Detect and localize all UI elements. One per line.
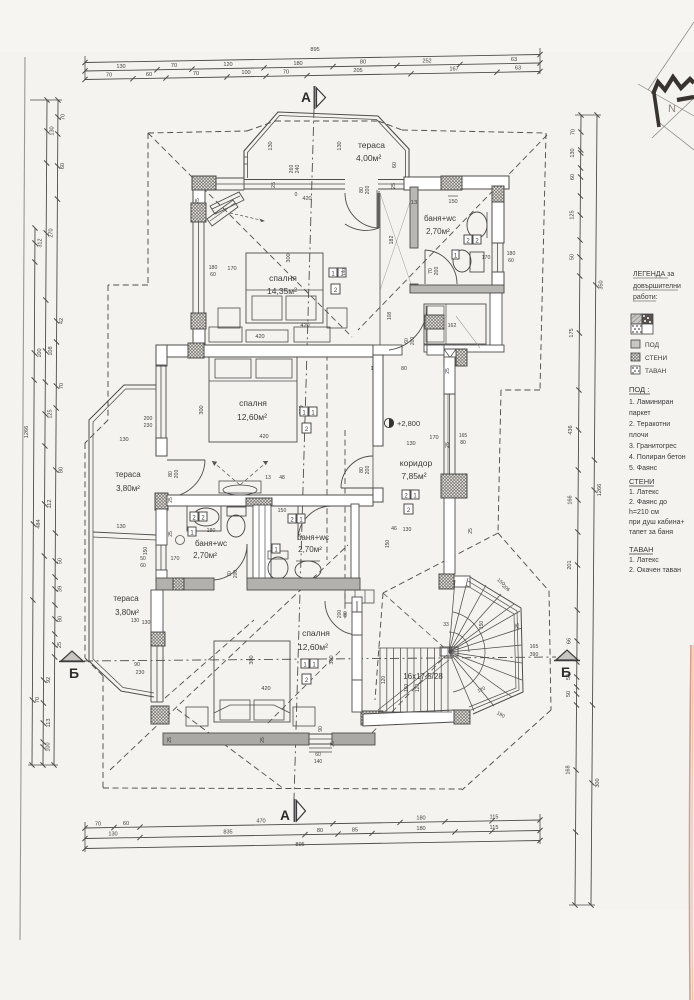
svg-text:80: 80	[343, 611, 349, 617]
right dimension chain	[575, 115, 581, 905]
roof outline dashed	[147, 133, 149, 285]
svg-text:140: 140	[314, 759, 323, 765]
bedroom2 furniture against top wall	[209, 327, 242, 342]
svg-text:ПОД: ПОД	[645, 342, 660, 349]
bedroom1 west wall upper pier	[191, 203, 206, 222]
svg-text:108: 108	[387, 312, 393, 321]
svg-text:42: 42	[59, 318, 65, 324]
svg-text:ТАВАН: ТАВАН	[645, 368, 667, 375]
svg-text:спалня: спалня	[269, 273, 297, 283]
svg-text:100: 100	[241, 70, 250, 76]
pink page edge right	[689, 645, 691, 1000]
svg-text:160: 160	[404, 684, 410, 693]
bath3 boxes	[288, 514, 296, 523]
bath2 toilet	[227, 507, 246, 516]
svg-text:1266: 1266	[597, 484, 603, 496]
svg-text:+2,800: +2,800	[397, 419, 420, 428]
svg-text:70: 70	[570, 129, 576, 135]
bedroom2 dresser	[219, 481, 261, 493]
svg-text:150: 150	[448, 199, 457, 205]
bottom dimension chain	[85, 820, 540, 828]
svg-text:420: 420	[261, 686, 270, 692]
svg-text:ЛЕГЕНДА за: ЛЕГЕНДА за	[633, 271, 674, 278]
svg-text:25: 25	[195, 198, 201, 204]
svg-text:ТАВАН: ТАВАН	[629, 545, 654, 554]
svg-text:4,00м²: 4,00м²	[356, 153, 381, 163]
svg-text:12,60м²: 12,60м²	[298, 642, 328, 652]
svg-text:162: 162	[448, 323, 457, 329]
svg-text:60: 60	[508, 258, 514, 264]
svg-text:470: 470	[256, 818, 265, 824]
bath1 north wall	[404, 177, 441, 190]
svg-text:201: 201	[567, 560, 573, 569]
north wall hatch pier left	[192, 176, 216, 190]
svg-text:25: 25	[468, 528, 474, 534]
bath1 west wall	[410, 187, 418, 248]
svg-text:спалня: спалня	[302, 628, 330, 638]
svg-text:835: 835	[223, 829, 232, 835]
svg-text:200: 200	[434, 267, 440, 276]
svg-text:70: 70	[283, 69, 289, 75]
stair hall south wall	[363, 710, 454, 726]
closet south wall	[424, 345, 504, 352]
svg-text:80: 80	[401, 366, 407, 372]
svg-text:2,70м²: 2,70м²	[426, 227, 450, 236]
svg-text:200: 200	[410, 337, 416, 346]
section line A-A	[294, 109, 314, 799]
svg-text:115: 115	[490, 825, 499, 831]
svg-text:130: 130	[108, 832, 117, 838]
wall bedroom2-baths	[167, 495, 373, 506]
svg-text:85: 85	[352, 827, 358, 833]
bedroom2 west pier	[155, 493, 168, 510]
svg-text:2. Окачен таван: 2. Окачен таван	[629, 567, 681, 574]
svg-text:80: 80	[57, 616, 63, 622]
east wall bath1	[492, 186, 504, 243]
stair cut line	[378, 655, 447, 710]
stair walk line	[453, 612, 485, 692]
bath2 sink	[187, 506, 221, 531]
svg-text:50: 50	[140, 556, 146, 562]
svg-text:тапет за баня: тапет за баня	[629, 528, 673, 536]
svg-text:484: 484	[36, 519, 42, 528]
svg-text:при душ кабина+: при душ кабина+	[629, 518, 685, 526]
svg-text:66: 66	[567, 638, 573, 644]
svg-text:200: 200	[174, 470, 180, 479]
svg-text:25: 25	[260, 737, 266, 743]
svg-text:4. Полиран бетон: 4. Полиран бетон	[629, 453, 686, 461]
svg-text:108: 108	[48, 346, 54, 355]
svg-text:60: 60	[315, 752, 321, 758]
bath1 south wall	[410, 285, 504, 293]
svg-text:130: 130	[142, 620, 151, 626]
svg-text:130: 130	[337, 141, 343, 150]
svg-text:63: 63	[515, 65, 521, 71]
bath3 toilet	[268, 557, 288, 579]
svg-text:170: 170	[429, 435, 438, 441]
svg-text:230: 230	[144, 423, 153, 429]
svg-text:180: 180	[416, 826, 425, 832]
svg-text:180: 180	[507, 251, 516, 257]
bedroom2 boxes	[300, 407, 308, 416]
stair bay windows	[470, 577, 523, 714]
svg-text:70: 70	[59, 383, 65, 389]
svg-text:60: 60	[210, 272, 216, 278]
svg-text:240: 240	[295, 165, 301, 174]
bedroom1 nightstands	[218, 308, 240, 328]
svg-text:СТЕНИ: СТЕНИ	[629, 477, 655, 486]
svg-text:5. Фаянс: 5. Фаянс	[629, 465, 658, 472]
svg-text:СТЕНИ: СТЕНИ	[645, 355, 667, 362]
svg-text:плочи: плочи	[629, 432, 648, 439]
svg-text:1266: 1266	[24, 426, 30, 438]
svg-text:113: 113	[46, 719, 52, 728]
bedroom2 east wall	[373, 355, 383, 446]
bedroom1 bed	[246, 253, 323, 323]
svg-text:0: 0	[295, 192, 298, 198]
bedroom2 swing arrows	[212, 461, 240, 485]
stair bay pier bottom	[454, 710, 470, 724]
bedroom2 terrace door	[167, 459, 205, 461]
svg-text:1. Латекс: 1. Латекс	[629, 489, 659, 496]
svg-text:420: 420	[259, 434, 268, 440]
svg-text:коридор: коридор	[400, 458, 433, 468]
svg-text:200: 200	[144, 416, 153, 422]
svg-text:150: 150	[385, 540, 391, 549]
svg-text:200: 200	[365, 186, 371, 195]
svg-text:70: 70	[193, 71, 199, 77]
svg-text:60: 60	[60, 163, 66, 169]
svg-text:баня+wc: баня+wc	[297, 533, 329, 542]
bedroom2 bed	[209, 357, 297, 442]
staircase straight flight	[378, 647, 452, 649]
svg-text:Б: Б	[69, 665, 79, 681]
svg-text:300: 300	[595, 778, 601, 787]
svg-text:N: N	[668, 103, 676, 115]
east wall corridor strip	[444, 357, 455, 394]
stair hall west wall	[352, 612, 362, 635]
svg-text:420: 420	[300, 323, 309, 329]
svg-text:50: 50	[58, 558, 64, 564]
top dimension chain	[85, 55, 540, 63]
svg-text:25: 25	[168, 531, 174, 537]
svg-text:300: 300	[199, 405, 205, 414]
terrace bay west	[89, 385, 156, 697]
svg-text:170: 170	[171, 556, 180, 562]
svg-text:90: 90	[134, 662, 140, 668]
svg-text:100: 100	[37, 348, 43, 357]
svg-text:25: 25	[271, 182, 277, 188]
bedroom1 finish boxes	[329, 268, 337, 277]
svg-text:3,80м²: 3,80м²	[115, 608, 139, 617]
corridor east wall window	[443, 394, 445, 474]
bedroom1 west window	[192, 222, 194, 313]
svg-text:300: 300	[329, 655, 335, 664]
svg-text:125: 125	[48, 409, 54, 418]
level mark +2.800	[384, 418, 393, 427]
svg-text:120: 120	[415, 684, 421, 693]
svg-text:895: 895	[310, 47, 319, 53]
svg-text:46: 46	[391, 526, 397, 532]
svg-text:80: 80	[317, 828, 323, 834]
svg-text:13: 13	[411, 200, 417, 206]
svg-text:120: 120	[381, 676, 387, 685]
svg-text:А: А	[280, 808, 290, 823]
svg-text:2. Фаянс до: 2. Фаянс до	[629, 499, 667, 506]
svg-text:130: 130	[406, 441, 415, 447]
svg-text:60: 60	[392, 162, 398, 168]
corridor east wall lower	[444, 498, 455, 574]
svg-text:70: 70	[60, 114, 66, 120]
east shaft X	[444, 349, 456, 366]
north wall sill lines under bay	[244, 179, 345, 181]
bedroom1 flue duct	[210, 192, 244, 214]
svg-text:200: 200	[233, 570, 239, 579]
section line B-B	[84, 657, 556, 661]
bedroom1 door to vestibule	[378, 191, 380, 228]
section mark B right	[556, 650, 578, 660]
svg-text:167: 167	[449, 67, 458, 73]
page edge line	[20, 57, 25, 940]
bath3 sink	[295, 561, 321, 579]
bath2-3 wall	[253, 505, 271, 582]
svg-text:Б: Б	[561, 664, 571, 680]
svg-text:130: 130	[116, 524, 125, 530]
svg-text:300: 300	[286, 253, 292, 262]
svg-text:баня+wc: баня+wc	[424, 214, 456, 223]
bedroom3 boxes	[301, 659, 309, 668]
bath1 toilet	[470, 252, 484, 272]
corridor north wall + door	[373, 345, 402, 355]
svg-text:80: 80	[460, 440, 466, 446]
bedroom1 west wall lower pier	[191, 313, 206, 329]
svg-text:48: 48	[279, 475, 285, 481]
svg-text:25: 25	[168, 497, 174, 503]
svg-text:7,85м²: 7,85м²	[401, 471, 426, 481]
svg-text:70: 70	[171, 63, 177, 69]
svg-text:270: 270	[49, 228, 55, 237]
svg-text:166: 166	[568, 495, 574, 504]
terrace divider	[93, 532, 156, 535]
svg-text:70: 70	[35, 697, 41, 703]
svg-text:312: 312	[37, 238, 43, 247]
svg-text:ПОД :: ПОД :	[629, 385, 649, 394]
svg-text:100: 100	[46, 742, 52, 751]
svg-text:2,70м²: 2,70м²	[193, 551, 217, 560]
bath3 east wall	[351, 504, 359, 582]
svg-text:205: 205	[353, 68, 362, 74]
svg-text:420: 420	[302, 196, 311, 202]
svg-text:170: 170	[482, 255, 491, 261]
svg-text:60: 60	[146, 72, 152, 78]
svg-text:25: 25	[515, 623, 521, 629]
svg-text:300: 300	[249, 655, 255, 664]
svg-text:работи:: работи:	[633, 293, 658, 301]
bedroom3 entry steps	[345, 590, 374, 603]
bath1 washbasin	[467, 212, 487, 238]
svg-text:895: 895	[295, 842, 304, 848]
svg-text:180: 180	[209, 265, 218, 271]
svg-text:230: 230	[136, 670, 145, 676]
terrace door	[377, 193, 379, 228]
svg-text:тераса: тераса	[358, 140, 385, 150]
svg-text:90: 90	[318, 726, 324, 732]
svg-text:12,60м²: 12,60м²	[237, 412, 267, 422]
south-east pier	[361, 711, 383, 725]
mid wall bedroom1-2	[167, 345, 373, 357]
svg-text:13: 13	[265, 475, 271, 481]
svg-text:h=210 см: h=210 см	[629, 509, 659, 516]
svg-text:60: 60	[570, 174, 576, 180]
north arrow	[648, 22, 694, 90]
svg-text:182: 182	[389, 236, 395, 245]
corridor east pier	[441, 474, 467, 498]
bedroom2 west wall	[156, 345, 167, 366]
bath1 door	[424, 250, 426, 284]
bath2 west wall window small	[155, 545, 157, 570]
svg-text:25: 25	[57, 642, 63, 648]
svg-text:63: 63	[511, 57, 517, 63]
svg-text:1. Латекс: 1. Латекс	[629, 557, 659, 564]
svg-text:баня+wc: баня+wc	[195, 539, 227, 548]
south wall	[163, 733, 309, 745]
svg-text:125: 125	[570, 210, 576, 219]
svg-text:50: 50	[569, 254, 575, 260]
svg-text:168: 168	[566, 765, 572, 774]
svg-text:35: 35	[330, 741, 336, 747]
svg-text:1. Ламиниран: 1. Ламиниран	[629, 399, 674, 406]
svg-text:60: 60	[140, 563, 146, 569]
corridor boxes	[402, 490, 410, 499]
svg-text:200: 200	[365, 466, 371, 475]
svg-text:165: 165	[530, 644, 539, 650]
bath1 boxes	[464, 235, 472, 244]
svg-text:130: 130	[268, 141, 274, 150]
svg-text:2. Теракотни: 2. Теракотни	[629, 421, 670, 428]
svg-text:200: 200	[337, 610, 343, 619]
wall baths-bedroom3	[156, 578, 214, 590]
svg-text:60: 60	[123, 821, 129, 827]
bedroom3 nightstands	[186, 707, 208, 726]
legend small squares	[631, 340, 640, 348]
svg-text:420: 420	[255, 334, 264, 340]
svg-text:150: 150	[278, 508, 287, 514]
svg-text:33: 33	[443, 622, 449, 628]
svg-text:130: 130	[116, 64, 125, 70]
svg-text:довършителни: довършителни	[633, 283, 681, 290]
svg-text:25: 25	[167, 737, 173, 743]
svg-text:120: 120	[223, 62, 232, 68]
svg-text:80: 80	[58, 467, 64, 473]
svg-text:165: 165	[459, 433, 468, 439]
stair bay pier top	[439, 574, 454, 589]
svg-text:14,35м²: 14,35м²	[267, 286, 297, 296]
corridor n-wall pier	[425, 315, 444, 329]
svg-text:150: 150	[143, 547, 149, 556]
terrace bay window top	[244, 112, 409, 178]
svg-text:70: 70	[95, 821, 101, 827]
svg-text:130: 130	[570, 148, 576, 157]
legend checker icon	[631, 314, 642, 324]
svg-text:спалня: спалня	[239, 398, 267, 408]
svg-text:92: 92	[46, 677, 52, 683]
bath3 north wall door	[297, 506, 299, 540]
bedroom2 corridor door	[341, 487, 373, 489]
left dimension chain	[54, 100, 58, 765]
svg-text:180: 180	[416, 816, 425, 822]
svg-text:115: 115	[490, 814, 499, 820]
svg-text:175: 175	[569, 328, 575, 337]
svg-text:80: 80	[360, 60, 366, 66]
svg-text:180: 180	[207, 528, 216, 534]
svg-text:130: 130	[119, 437, 128, 443]
bath2 door	[246, 544, 248, 580]
svg-text:112: 112	[47, 500, 53, 509]
svg-text:350: 350	[599, 280, 605, 289]
svg-text:390: 390	[530, 652, 539, 658]
stair bay top wall	[454, 576, 470, 587]
staircase winder	[440, 647, 458, 656]
svg-text:3,80м²: 3,80м²	[116, 484, 140, 493]
bedroom3 door from stair hall	[352, 597, 362, 612]
svg-text:130: 130	[403, 527, 412, 533]
svg-text:252: 252	[422, 58, 431, 64]
vestibule cross	[380, 193, 413, 290]
svg-text:50: 50	[566, 691, 572, 697]
svg-text:16x17.5/28: 16x17.5/28	[403, 672, 443, 681]
svg-text:180: 180	[293, 61, 302, 67]
section mark B left	[61, 651, 83, 661]
svg-text:3. Гранитогрес: 3. Гранитогрес	[629, 443, 677, 450]
svg-text:170: 170	[227, 266, 236, 272]
stair bay roof dashed diamond	[498, 533, 549, 591]
svg-text:А: А	[301, 90, 311, 105]
svg-text:130: 130	[131, 618, 140, 624]
bath2 boxes	[190, 512, 198, 521]
svg-text:2,70м²: 2,70м²	[298, 545, 322, 554]
svg-text:тераса: тераса	[113, 594, 139, 603]
svg-text:паркет: паркет	[629, 410, 651, 417]
svg-text:130: 130	[49, 126, 55, 135]
bedroom3 west wall	[151, 632, 165, 646]
svg-text:тераса: тераса	[115, 470, 141, 479]
svg-text:140: 140	[341, 268, 346, 276]
svg-text:25: 25	[445, 368, 451, 374]
svg-text:436: 436	[568, 425, 574, 434]
bedroom3 bed	[214, 641, 290, 722]
roof hip diagonals	[148, 133, 352, 337]
svg-text:70: 70	[106, 73, 112, 79]
north wall window left	[216, 177, 244, 179]
svg-text:39: 39	[58, 586, 64, 592]
closet room	[424, 304, 486, 344]
